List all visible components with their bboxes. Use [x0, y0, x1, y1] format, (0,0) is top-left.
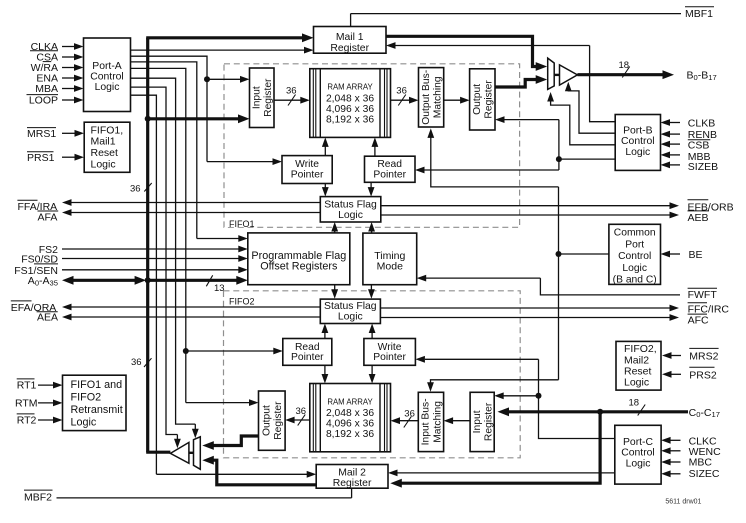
svg-text:Matching: Matching	[433, 76, 444, 118]
wire FS0/SD to offset registers	[62, 258, 240, 260]
svg-text:BE: BE	[689, 249, 703, 261]
wire CSB to Port-B	[668, 143, 680, 145]
Write Pointer 1 U9	[282, 156, 332, 184]
svg-text:(B and C): (B and C)	[613, 275, 657, 286]
bus C0-C17 input	[507, 410, 688, 413]
svg-text:Offset Registers: Offset Registers	[260, 261, 338, 273]
svg-text:PRS1: PRS1	[27, 152, 55, 164]
wire SIZEB to Port-B	[668, 164, 680, 166]
FIFO2 Mail2 Reset Logic U24	[616, 341, 661, 390]
svg-text:4,096 x 36: 4,096 x 36	[326, 104, 374, 115]
Read Pointer 2 U15	[283, 339, 332, 366]
svg-text:RAM ARRAY: RAM ARRAY	[327, 397, 373, 406]
bus Mail2 register to A-side mux	[212, 460, 316, 485]
bus RAM1 to Output Bus-Matching	[391, 99, 412, 101]
svg-text:Output: Output	[472, 84, 483, 115]
svg-text:Control: Control	[618, 251, 651, 262]
wire Port-B ctl node	[559, 158, 615, 160]
wire RT2 to retransmit logic	[38, 419, 55, 421]
svg-text:Control: Control	[90, 72, 124, 83]
buffer BUF2 triangle A-side	[170, 442, 189, 463]
wire Timing Mode to Status Flag Logic 1	[371, 230, 373, 234]
svg-text:PRS2: PRS2	[689, 369, 717, 381]
wire FFA/IRA from Status Flag Logic 1	[70, 202, 321, 204]
wire Read Pointer 2 to RAM2	[324, 365, 326, 376]
wire CSA to Port-A	[62, 56, 76, 58]
wire WENC to Port-C	[669, 450, 681, 452]
wire Port-B ctl to Read Pointer 1	[424, 169, 559, 171]
svg-text:RT2: RT2	[17, 415, 37, 427]
wire PRS1 to reset logic	[62, 156, 77, 158]
svg-text:5611 drw01: 5611 drw01	[665, 499, 701, 506]
wire MBC to Port-C	[669, 461, 681, 463]
Mail 1 Register U4	[314, 27, 387, 54]
wire FS1/SEN to offset registers	[62, 269, 240, 271]
svg-text:Mail 2: Mail 2	[338, 467, 366, 478]
FIFO2 dashed boundary box	[224, 291, 521, 458]
wire MBA to Port-A	[62, 88, 76, 90]
wire Write Pointer 2 to RAM2	[371, 365, 373, 376]
svg-text:FIFO2: FIFO2	[229, 297, 255, 307]
svg-text:RT1: RT1	[17, 380, 37, 392]
wire offset registers to Status Flag Logic 1	[334, 230, 336, 233]
FIFO1 dashed boundary box	[224, 64, 520, 228]
bus Output Register 2 to A-side mux	[212, 436, 259, 446]
svg-text:Input: Input	[252, 86, 263, 109]
svg-text:AFA: AFA	[38, 212, 58, 224]
svg-text:Logic: Logic	[338, 210, 363, 221]
svg-text:LOOP: LOOP	[29, 95, 58, 107]
wire AEA from Status Flag Logic 2	[70, 316, 321, 318]
svg-text:13: 13	[214, 283, 225, 294]
wire AEB from Status Flag Logic 1	[381, 214, 672, 216]
svg-text:CSB: CSB	[688, 140, 710, 152]
wire Port-A ctl to A-side mux select	[131, 78, 196, 424]
wire Mail1 read control from Port-B	[590, 46, 616, 122]
Status Flag Logic 2 U14	[320, 299, 380, 323]
svg-text:RTM: RTM	[15, 398, 38, 410]
wire Port-C ctl node	[539, 396, 615, 439]
wire Port-B ctl to B-side buffer enable	[568, 87, 615, 133]
svg-text:MRS2: MRS2	[689, 351, 718, 363]
wire MRS2 to reset logic 2	[670, 355, 682, 357]
bus Output Bus-Matching to Output Register 1	[444, 99, 462, 101]
svg-text:AEB: AEB	[688, 212, 709, 224]
svg-text:Logic: Logic	[624, 377, 649, 389]
svg-text:MBA: MBA	[35, 83, 58, 95]
svg-text:8,192 x 36: 8,192 x 36	[326, 429, 374, 440]
Port-A Control Logic U1	[84, 38, 131, 112]
wire EFA/ORA from Status Flag Logic 2	[70, 306, 321, 308]
FIFO1 Mail1 Reset Logic U2	[84, 122, 130, 172]
svg-text:FIFO1: FIFO1	[229, 219, 255, 229]
RAM ARRAY 2 U17	[310, 384, 391, 452]
svg-text:Port-B: Port-B	[623, 125, 653, 136]
wire Port-B ctl to Output Register 1	[504, 119, 559, 121]
svg-text:Register: Register	[263, 78, 274, 117]
wire CLKA to Port-A	[62, 46, 76, 48]
svg-text:MBF2: MBF2	[24, 492, 52, 504]
mux MUX1 trapezoid B-side	[548, 58, 555, 89]
wire Mail2 read control from Port-C	[396, 472, 615, 474]
wire Common Port ctl node	[559, 253, 609, 255]
svg-text:Common: Common	[614, 228, 656, 239]
svg-text:2,048 x 36: 2,048 x 36	[326, 408, 374, 419]
svg-text:MBC: MBC	[689, 457, 713, 469]
svg-text:Control: Control	[621, 136, 655, 147]
svg-text:Register: Register	[273, 401, 284, 440]
wire RTM to retransmit logic	[38, 402, 55, 404]
svg-text:FWFT: FWFT	[688, 289, 718, 301]
buffer BUF1 triangle B-side	[560, 65, 578, 85]
wire mux to buffer stub B-side	[554, 74, 559, 76]
svg-text:Port-C: Port-C	[623, 437, 654, 448]
svg-text:Retransmit: Retransmit	[71, 404, 123, 416]
svg-text:Register: Register	[484, 80, 495, 119]
svg-text:MBF1: MBF1	[685, 8, 713, 20]
svg-text:Status Flag: Status Flag	[324, 199, 377, 210]
svg-text:Input Bus-: Input Bus-	[421, 398, 432, 445]
svg-text:Mail 1: Mail 1	[336, 32, 364, 43]
wire MRS1 to reset logic	[62, 132, 77, 134]
Input Bus-Matching U19	[418, 392, 443, 451]
wire CLKB to Port-B	[668, 122, 680, 124]
mux MUX2 trapezoid A-side	[194, 437, 201, 470]
wire Timing Mode to Status Flag Logic 2	[370, 285, 372, 292]
svg-text:36: 36	[131, 357, 142, 368]
svg-text:Pointer: Pointer	[373, 169, 406, 180]
bus A-port to Mail1 register	[146, 36, 304, 39]
node FIFO1 label	[227, 219, 251, 228]
wire FWFT to Timing Mode	[540, 278, 680, 295]
svg-text:Output Bus-: Output Bus-	[421, 70, 432, 125]
svg-text:Matching: Matching	[432, 401, 443, 443]
Input Register 2 U20	[470, 392, 494, 451]
svg-text:RAM ARRAY: RAM ARRAY	[327, 83, 373, 92]
svg-text:Input: Input	[472, 410, 483, 433]
Timing Mode U13	[363, 233, 417, 285]
wire Common Port ctl to Input Bus-Matching	[431, 380, 559, 385]
wire Common Port ctl to Output Bus-Matching	[431, 135, 559, 187]
svg-text:4,096 x 36: 4,096 x 36	[326, 419, 374, 430]
Programmable Flag Offset Registers U12	[248, 233, 350, 285]
bus Input Bus-Matching to RAM2	[398, 420, 418, 422]
wire Port-A ctl to Input Register 1 and Write Pointer 1	[131, 56, 208, 161]
svg-text:Pointer: Pointer	[291, 169, 324, 180]
svg-text:FIFO1,: FIFO1,	[91, 124, 124, 136]
wire Read Pointer 1 to RAM1	[374, 145, 376, 156]
wire Port-A ctl to offset registers	[131, 62, 197, 239]
wire PRS2 to reset logic 2	[670, 373, 682, 375]
svg-text:36: 36	[404, 408, 415, 419]
wire Read Pointer 2 to Status Flag Logic 2	[324, 331, 326, 339]
svg-text:Register: Register	[333, 478, 372, 489]
Output Register 1 U8	[470, 69, 495, 130]
svg-text:Logic: Logic	[622, 263, 647, 274]
wire mux to buffer stub A-side	[189, 452, 194, 454]
svg-text:Reset: Reset	[91, 147, 119, 159]
node junction A-bus Input Register 1	[145, 116, 151, 122]
svg-text:SIZEB: SIZEB	[688, 161, 718, 173]
FIFO1 and FIFO2 Retransmit Logic U3	[63, 375, 127, 430]
wire RT1 to retransmit logic	[38, 384, 55, 386]
Common Port Control Logic U23	[609, 224, 661, 284]
wire AFC from Status Flag Logic 2	[380, 317, 671, 319]
Port-B Control Logic U22	[615, 115, 660, 171]
wire Read Pointer 1 to Status Flag Logic 1	[370, 182, 372, 189]
wire Port-C ctl to Input Register 2	[503, 395, 539, 397]
svg-text:Logic: Logic	[91, 158, 116, 170]
bus Mail1 register to B-side mux	[386, 36, 538, 66]
svg-text:FIFO1 and: FIFO1 and	[71, 379, 123, 391]
svg-text:CLKB: CLKB	[688, 118, 715, 130]
svg-text:Control: Control	[621, 448, 655, 459]
svg-text:Output: Output	[262, 405, 273, 436]
Input Register 1 U5	[250, 68, 275, 128]
Read Pointer 1 U10	[365, 156, 416, 182]
wire FFC/IRC from Status Flag Logic 2	[380, 307, 671, 309]
bus Input Register 2 to Input Bus-Matching	[451, 420, 470, 422]
svg-text:Mode: Mode	[377, 261, 403, 273]
svg-text:Status Flag: Status Flag	[324, 301, 377, 312]
wire Port-A ctl to Read Pointer 2 and Output Register 2	[131, 68, 186, 402]
wire Port-C ctl to Write Pointer 2	[425, 358, 539, 360]
Mail 2 Register U21	[316, 465, 388, 489]
wire EFB/ORB from Status Flag Logic 1	[381, 205, 672, 207]
svg-text:Logic: Logic	[626, 458, 651, 469]
wire ENA to Port-A	[62, 77, 76, 79]
svg-text:Pointer: Pointer	[373, 352, 406, 363]
bus A-port to output mux	[146, 451, 170, 454]
Status Flag Logic 1 U11	[320, 197, 381, 222]
svg-text:Logic: Logic	[625, 147, 650, 158]
svg-text:FIFO2: FIFO2	[71, 392, 102, 404]
wire MBB to Port-B	[668, 154, 680, 156]
wire W/RA to Port-A	[62, 67, 76, 69]
svg-text:Port: Port	[625, 239, 644, 250]
wire FS2 to offset registers	[62, 248, 240, 250]
wire RENB to Port-B	[668, 133, 680, 135]
svg-text:8,192 x 36: 8,192 x 36	[326, 114, 374, 125]
wire Write Pointer 1 to RAM1	[324, 145, 326, 156]
svg-text:Register: Register	[484, 402, 495, 441]
svg-text:36: 36	[130, 183, 141, 194]
Output Register 2 U18	[259, 391, 286, 450]
bus Input Register 1 to RAM1	[274, 99, 302, 101]
Output Bus-Matching U7	[419, 68, 444, 127]
bus A0-A35 bidirectional	[62, 276, 74, 285]
svg-text:MRS1: MRS1	[27, 128, 56, 140]
bus Output Register 1 to B-side mux	[495, 80, 538, 88]
bus B0-B17 output	[577, 73, 664, 76]
wire MBF1 from Mail1 register	[350, 14, 352, 27]
svg-text:Logic: Logic	[71, 416, 97, 428]
svg-text:AFC: AFC	[688, 314, 709, 326]
svg-text:Logic: Logic	[95, 82, 120, 93]
svg-text:Logic: Logic	[338, 312, 363, 323]
wire AFA from Status Flag Logic 1	[70, 212, 321, 214]
wire CLKC to Port-C	[669, 439, 681, 441]
wire Write Pointer 1 to Status Flag Logic 1	[324, 184, 326, 190]
bus RAM2 to Output Register 2	[293, 419, 310, 421]
Port-C Control Logic U25	[615, 425, 661, 484]
Write Pointer 2 U16	[364, 339, 416, 366]
wire MBF2 from Mail2 register	[57, 497, 352, 499]
wire SIZEC to Port-C	[669, 473, 681, 475]
svg-text:Pointer: Pointer	[291, 352, 324, 363]
wire Port-A ctl to Mail2 register	[131, 95, 157, 474]
svg-text:2,048 x 36: 2,048 x 36	[326, 93, 374, 104]
wire Port-B ctl to B-side mux select	[551, 98, 616, 145]
svg-text:Register: Register	[330, 43, 369, 54]
bus A-port to Input Register 1	[148, 117, 240, 120]
node junction C-bus Mail2	[597, 409, 603, 415]
svg-text:AEA: AEA	[37, 312, 58, 324]
wire offset registers to Status Flag Logic 2	[334, 285, 336, 292]
node junction A-bus A0-A35	[145, 277, 151, 283]
RAM ARRAY 1 U6	[310, 69, 391, 138]
wire Port-A ctl to A-side buffer enable	[131, 87, 178, 434]
svg-text:Mail1: Mail1	[91, 136, 116, 148]
svg-text:SIZEC: SIZEC	[689, 468, 720, 480]
svg-text:18: 18	[629, 398, 640, 409]
svg-text:Port-A: Port-A	[92, 61, 122, 72]
wire LOOP to Port-A	[62, 99, 76, 101]
wire Write Pointer 2 to Status Flag Logic 2	[371, 331, 373, 339]
wire Port-A ctl to Mail1 register	[131, 49, 307, 51]
bus C0-C17 to Mail2 register	[400, 412, 600, 483]
bus A-port vertical trunk	[146, 38, 149, 452]
svg-text:FS1/SEN: FS1/SEN	[14, 265, 58, 277]
bus A0-A35 to offset registers	[148, 279, 239, 282]
wire BE to Common Port Control	[668, 253, 680, 255]
